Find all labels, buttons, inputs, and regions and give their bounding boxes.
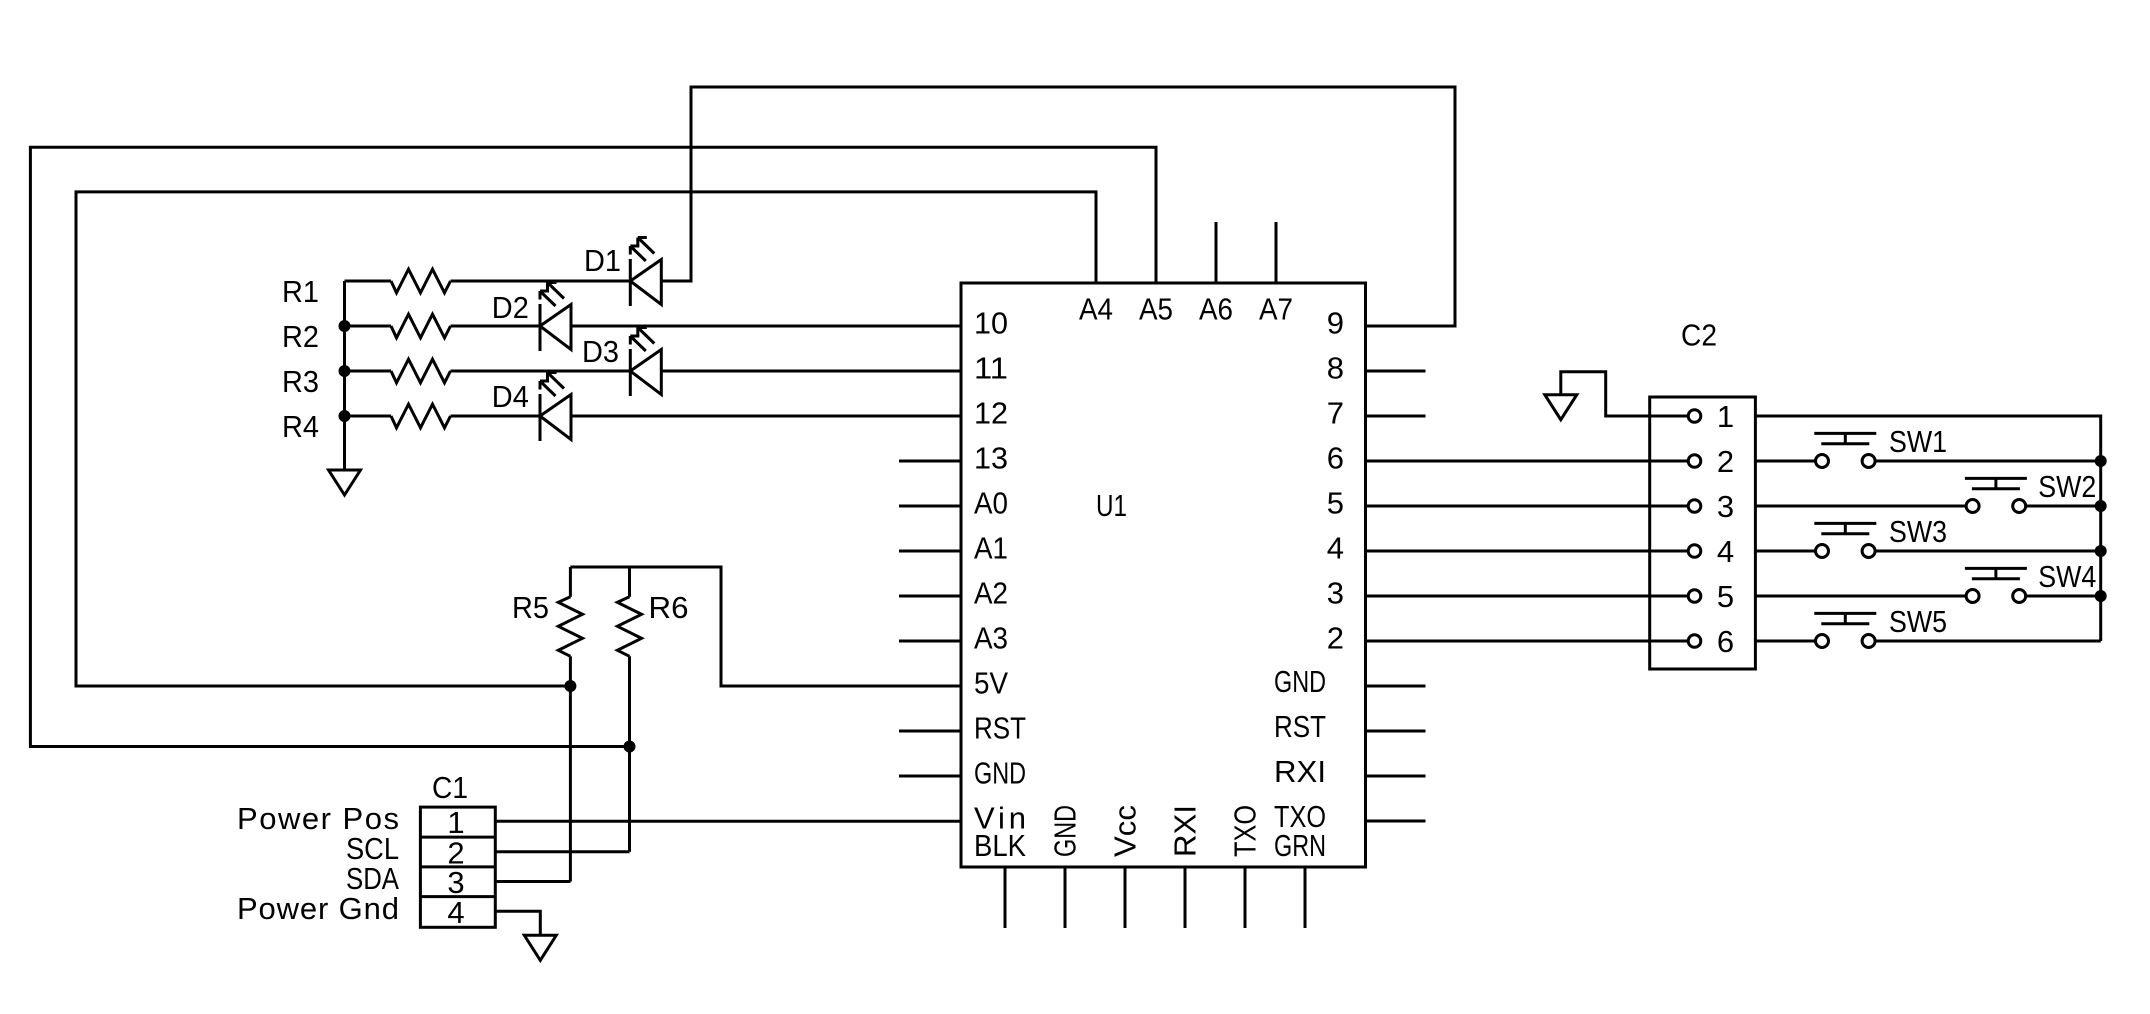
- resistor R6: [628, 567, 631, 597]
- svg-text:6: 6: [1327, 441, 1344, 476]
- U1 top pin stub A6: [1215, 222, 1218, 283]
- svg-text:C1: C1: [432, 770, 468, 805]
- wire D4 cathode to R4: [451, 415, 541, 418]
- wire U1 pin 2 to C2 pin 6: [1366, 640, 1650, 643]
- U1 left pin stub RST: [899, 730, 961, 733]
- connector C1 body: [420, 807, 495, 927]
- wire 5V net: [570, 567, 961, 686]
- svg-text:R1: R1: [282, 274, 319, 309]
- svg-text:GND: GND: [974, 756, 1026, 791]
- ground C1 pin4: [524, 935, 556, 960]
- U1 left pin stub GND: [899, 775, 961, 778]
- wire C2 to SW5: [1755, 640, 1815, 643]
- svg-text:A0: A0: [974, 486, 1008, 521]
- U1 right pin stub 7: [1366, 415, 1426, 418]
- svg-text:3: 3: [1717, 489, 1734, 524]
- svg-text:4: 4: [1717, 534, 1734, 569]
- svg-text:SW3: SW3: [1889, 514, 1947, 549]
- svg-text:R3: R3: [282, 364, 319, 399]
- svg-text:Power Gnd: Power Gnd: [237, 891, 399, 926]
- wire C2 pin1 to ground: [1561, 372, 1650, 416]
- svg-text:RST: RST: [974, 711, 1026, 746]
- resistor R1: [391, 269, 451, 293]
- svg-text:12: 12: [974, 396, 1008, 431]
- junction SW1 bus: [2096, 457, 2105, 466]
- svg-text:BLK: BLK: [974, 828, 1026, 863]
- junction R6-SCL: [625, 742, 634, 751]
- IC U1 body: [961, 283, 1366, 867]
- C2 pin 5 circle: [1650, 595, 1689, 598]
- svg-text:3: 3: [1327, 576, 1344, 611]
- C2 pin 1 circle: [1650, 415, 1689, 418]
- wire C2 to SW3: [1755, 550, 1815, 553]
- LED D3: [630, 328, 661, 397]
- svg-text:9: 9: [1327, 306, 1344, 341]
- wire U1 pin 10 to D2 anode: [571, 325, 961, 328]
- wire R4 to bus: [345, 415, 392, 418]
- svg-text:TXO: TXO: [1228, 805, 1263, 857]
- U1 right pin stub GND: [1366, 685, 1426, 688]
- wire C2 pin1 to switch bus: [1755, 416, 2100, 641]
- U1 left pin stub A2: [899, 595, 961, 598]
- svg-text:R2: R2: [282, 319, 319, 354]
- wire SDA net (A4 loop): [76, 192, 1096, 686]
- junction bus-R3: [340, 367, 349, 376]
- U1 right pin stub RXI: [1366, 775, 1426, 778]
- svg-text:SW4: SW4: [2038, 559, 2096, 594]
- svg-text:A6: A6: [1199, 292, 1233, 327]
- wire SW4 to bus: [2026, 595, 2101, 598]
- svg-text:D2: D2: [492, 290, 529, 325]
- svg-text:A1: A1: [974, 531, 1008, 566]
- wire C1 pin1 to U1 Vin: [495, 820, 961, 823]
- svg-text:5V: 5V: [974, 666, 1008, 701]
- svg-text:13: 13: [974, 441, 1008, 476]
- svg-text:7: 7: [1327, 396, 1344, 431]
- wire SCL net (A5 loop): [30, 147, 1156, 746]
- svg-text:4: 4: [1327, 531, 1344, 566]
- svg-text:SW2: SW2: [2038, 469, 2096, 504]
- svg-text:RXI: RXI: [1274, 754, 1326, 789]
- svg-text:R6: R6: [649, 590, 689, 625]
- svg-text:A4: A4: [1079, 292, 1113, 327]
- LED D2: [540, 283, 571, 352]
- svg-text:GRN: GRN: [1274, 828, 1326, 863]
- wire D1 cathode to R1: [451, 280, 631, 283]
- wire C1 pin2 to R6 (SCL): [495, 850, 629, 853]
- junction bus-R2: [340, 322, 349, 331]
- svg-text:A5: A5: [1139, 292, 1173, 327]
- ground C2 pin1: [1545, 395, 1577, 420]
- U1 bottom pin stub x=1305: [1304, 867, 1307, 928]
- svg-text:D1: D1: [584, 243, 621, 278]
- wire D2 cathode to R2: [451, 325, 541, 328]
- svg-text:A2: A2: [974, 576, 1008, 611]
- switch SW5: [1814, 613, 1876, 647]
- wire U1 pin 6 to C2 pin 2: [1366, 460, 1650, 463]
- svg-text:D4: D4: [492, 379, 529, 414]
- svg-text:R4: R4: [282, 409, 319, 444]
- resistor R4: [391, 404, 451, 428]
- svg-text:D3: D3: [582, 334, 619, 369]
- switch SW4: [1965, 568, 2027, 602]
- svg-text:U1: U1: [1096, 488, 1127, 523]
- svg-text:C2: C2: [1681, 318, 1717, 353]
- C2 pin 2 circle: [1650, 460, 1689, 463]
- U1 right pin stub RST: [1366, 730, 1426, 733]
- svg-text:2: 2: [1327, 621, 1344, 656]
- wire U1 pin 4 to C2 pin 4: [1366, 550, 1650, 553]
- wire U1 pin 5 to C2 pin 3: [1366, 505, 1650, 508]
- junction R5-SDA: [566, 682, 575, 691]
- junction bus-R4: [340, 412, 349, 421]
- switch SW2: [1965, 478, 2027, 512]
- resistor R2: [391, 314, 451, 338]
- svg-text:GND: GND: [1048, 805, 1083, 857]
- svg-text:GND: GND: [1274, 664, 1326, 699]
- wire C1 pin4 to ground: [495, 911, 540, 935]
- wire C1 pin3 to R5 (SDA): [495, 880, 570, 883]
- wire U1 pin 11 to D3 anode: [661, 370, 961, 373]
- wire resistor common bus: [343, 281, 346, 470]
- wire SW1 to bus: [1875, 460, 2101, 463]
- svg-text:1: 1: [1717, 399, 1734, 434]
- wire C2 to SW1: [1755, 460, 1815, 463]
- svg-text:R5: R5: [512, 590, 549, 625]
- junction SW4 bus: [2096, 592, 2105, 601]
- junction SW2 bus: [2096, 502, 2105, 511]
- wire R2 to bus: [345, 325, 392, 328]
- U1 bottom pin stub x=1065: [1064, 867, 1067, 928]
- U1 bottom pin stub x=1005: [1004, 867, 1007, 928]
- svg-text:A7: A7: [1259, 292, 1293, 327]
- wire SW5 to bus: [1875, 640, 2101, 643]
- resistor R5: [569, 567, 572, 597]
- svg-text:8: 8: [1327, 351, 1344, 386]
- svg-text:Vcc: Vcc: [1108, 805, 1143, 857]
- svg-text:RXI: RXI: [1168, 805, 1203, 857]
- U1 left pin stub 13: [899, 460, 961, 463]
- svg-text:10: 10: [974, 306, 1008, 341]
- U1 left pin stub A3: [899, 640, 961, 643]
- svg-text:SW5: SW5: [1889, 604, 1947, 639]
- wire D3 cathode to R3: [451, 370, 631, 373]
- svg-text:SW1: SW1: [1889, 424, 1947, 459]
- switch SW3: [1814, 523, 1876, 557]
- wire U1 pin 9 to D1 anode: [661, 87, 1455, 326]
- U1 right pin stub TXO: [1366, 820, 1426, 823]
- wire U1 pin 12 to D4 anode: [571, 415, 961, 418]
- svg-text:2: 2: [1717, 444, 1734, 479]
- wire U1 pin 3 to C2 pin 5: [1366, 595, 1650, 598]
- U1 left pin stub A0: [899, 505, 961, 508]
- wire R3 to bus: [345, 370, 392, 373]
- resistor R3: [391, 359, 451, 383]
- U1 bottom pin stub x=1125: [1124, 867, 1127, 928]
- svg-text:RST: RST: [1274, 709, 1326, 744]
- wire C2 to SW4: [1755, 595, 1966, 598]
- svg-text:A3: A3: [974, 621, 1008, 656]
- LED D1: [630, 238, 661, 307]
- U1 top pin stub A7: [1275, 222, 1278, 283]
- ground LED bus: [329, 470, 361, 495]
- switch SW1: [1814, 433, 1876, 467]
- U1 left pin stub A1: [899, 550, 961, 553]
- connector C2 body: [1650, 397, 1756, 669]
- C2 pin 4 circle: [1650, 550, 1689, 553]
- wire SW2 to bus: [2026, 505, 2101, 508]
- wire R1 to bus: [345, 280, 392, 283]
- U1 right pin stub 8: [1366, 370, 1426, 373]
- svg-text:4: 4: [447, 895, 464, 930]
- svg-text:6: 6: [1717, 624, 1734, 659]
- U1 bottom pin stub x=1185: [1184, 867, 1187, 928]
- C2 pin 3 circle: [1650, 505, 1689, 508]
- svg-text:11: 11: [974, 351, 1008, 386]
- LED D4: [540, 373, 571, 442]
- junction SW3 bus: [2096, 547, 2105, 556]
- svg-text:5: 5: [1717, 579, 1734, 614]
- C2 pin 6 circle: [1650, 640, 1689, 643]
- U1 bottom pin stub x=1245: [1244, 867, 1247, 928]
- wire C2 to SW2: [1755, 505, 1966, 508]
- wire SW3 to bus: [1875, 550, 2101, 553]
- svg-text:5: 5: [1327, 486, 1344, 521]
